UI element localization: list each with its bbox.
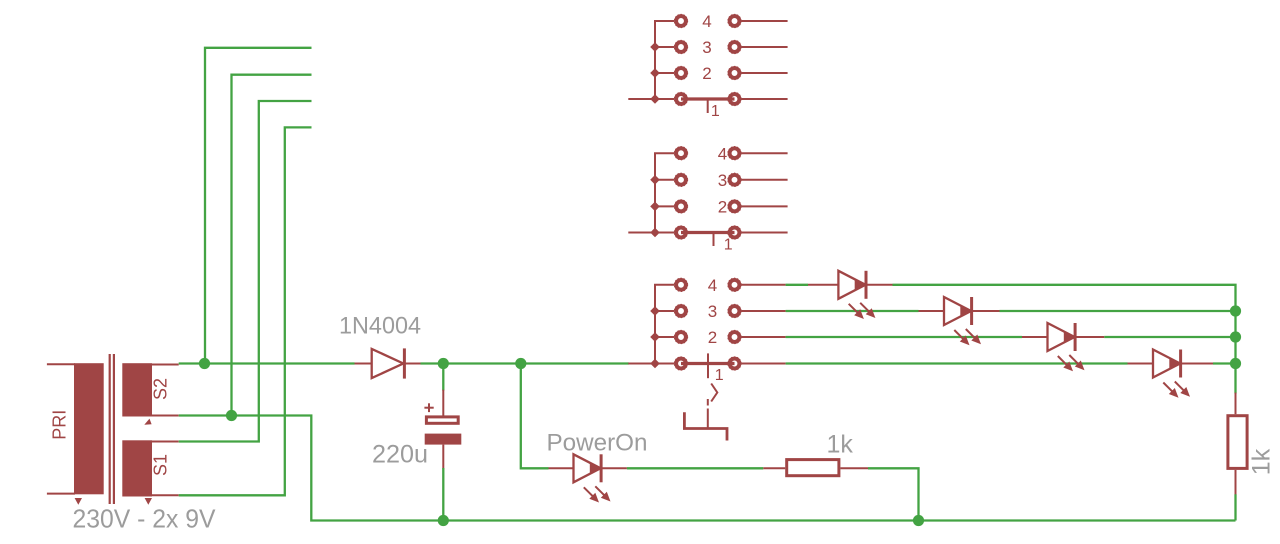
wire net4 corner to S1 bottom [179, 127, 312, 495]
connector J2 pad 2 left [676, 202, 686, 212]
svg-text:3: 3 [718, 171, 727, 190]
polarity arrow S2 pin [144, 419, 151, 425]
svg-text:1: 1 [711, 103, 720, 120]
resistor R2 1k vertical [1235, 393, 1237, 415]
svg-text:2: 2 [708, 328, 717, 347]
junction node 4 [226, 410, 237, 421]
connector J3 pad 4 left [676, 280, 686, 290]
connector J2 pad 1 left [676, 228, 686, 238]
wire PowerOn to resistor [627, 467, 763, 469]
capacitor C1 220u [442, 390, 444, 416]
LED D3 [808, 284, 838, 286]
connector J1 pad 1 left [676, 94, 686, 104]
LED D4 [919, 310, 944, 312]
svg-text:1k: 1k [827, 431, 854, 459]
junction node 8 [1230, 331, 1241, 342]
svg-text:S2: S2 [151, 378, 171, 400]
connector J2 right stubs [741, 152, 787, 154]
connector J1 tick [707, 101, 709, 114]
wire row3 LED D4 to right bus [1000, 310, 1236, 312]
wire net1 corner [205, 48, 312, 364]
svg-text:4: 4 [708, 276, 717, 295]
wire net3 corner to S1 top [179, 101, 312, 442]
connector J1 junction row2 [650, 68, 660, 78]
connector J2 pad 4 right [730, 148, 740, 158]
connector J1 right stubs [741, 20, 787, 22]
svg-text:2: 2 [718, 198, 727, 217]
connector J2 junction row1 [650, 228, 660, 238]
connector J3 pad 2 left [676, 332, 686, 342]
svg-text:1k: 1k [1248, 448, 1276, 475]
svg-text:4: 4 [702, 12, 711, 31]
wire row3 connector to LED D4 [786, 310, 919, 312]
connector J2 pad 3 left [676, 175, 686, 185]
connector J1 junction row1 [650, 94, 660, 104]
connector J1 left bus [655, 21, 674, 99]
LED D6 [1128, 363, 1153, 365]
junction node 5 [438, 515, 449, 526]
svg-text:2: 2 [702, 64, 711, 83]
svg-text:4: 4 [718, 144, 727, 163]
svg-text:3: 3 [702, 38, 711, 57]
diode D1 1N4004 [355, 363, 372, 365]
connector J3 junction row2 [650, 332, 660, 342]
LED PowerOn [549, 467, 574, 469]
svg-text:230V - 2x 9V: 230V - 2x 9V [73, 504, 217, 534]
wire row2 connector to LED D5 [786, 336, 1022, 338]
junction node 3 [515, 358, 526, 369]
connector J3 row1 bus line [681, 362, 735, 365]
earth bracket below J3 [707, 399, 709, 406]
wire S2 bottom to ground rail [179, 416, 1236, 521]
wire VCC rail from diode to connector [421, 362, 629, 364]
connector J2 tick [713, 234, 715, 246]
connector J1 pad 4 right [730, 16, 740, 26]
svg-text:220u: 220u [372, 441, 428, 469]
connector J2 pad 1 right [730, 228, 740, 238]
connector J3 pad 3 right [730, 306, 740, 316]
wire capacitor bottom [442, 468, 444, 521]
junction node 6 [913, 515, 924, 526]
connector J1 pad 4 left [676, 16, 686, 26]
svg-text:PRI: PRI [50, 410, 70, 440]
connector J2 junction row3 [650, 175, 660, 185]
connector J2 row1 stub left [628, 232, 674, 234]
connector J1 pad 3 left [676, 42, 686, 52]
connector J3 pad 3 left [676, 306, 686, 316]
LED D5 [1022, 336, 1047, 338]
polarity arrow S1 pin [145, 498, 152, 505]
transformer core [109, 354, 111, 504]
wire capacitor top [442, 364, 444, 391]
connector J2 row1 bus line [681, 231, 735, 234]
wire row1 LED D6 to right bus [1213, 362, 1236, 364]
connector J2 pad 4 left [676, 148, 686, 158]
connector J3 pad 4 right [730, 280, 740, 290]
connector J1 row1 bus line [681, 97, 735, 100]
polarity arrow PRI pin [75, 498, 82, 505]
junction node 1 [199, 358, 210, 369]
wire resistor R2 to ground rail [1234, 494, 1236, 520]
wire row2 LED D5 to right bus [1104, 336, 1235, 338]
svg-text:PowerOn: PowerOn [547, 430, 648, 457]
junction node 2 [438, 358, 449, 369]
junction node 7 [1230, 305, 1241, 316]
connector J3 right stubs [741, 284, 785, 286]
connector J3 row1 stub left [628, 363, 674, 365]
connector J2 left bus [655, 153, 674, 232]
connector J1 junction row3 [650, 42, 660, 52]
connector J3 junction row1 [650, 359, 660, 369]
connector J2 pad 3 right [730, 175, 740, 185]
svg-text:1N4004: 1N4004 [339, 313, 421, 340]
wire VCC rail from S2 to diode [179, 362, 355, 364]
junction node 9 [1230, 358, 1241, 369]
svg-text:1: 1 [724, 237, 733, 254]
wire row4 connector to LED D3 [786, 284, 808, 286]
connector J1 pad 1 right [730, 94, 740, 104]
connector J3 pad 1 left [676, 359, 686, 369]
connector J3 junction row3 [650, 306, 660, 316]
connector J3 pad 2 right [730, 332, 740, 342]
transformer TR1 secondary winding S2 [122, 363, 152, 416]
connector J2 junction row2 [650, 202, 660, 212]
connector J1 pad 3 right [730, 42, 740, 52]
wire branch to PowerOn LED [521, 364, 549, 469]
resistor R1 1k [763, 467, 785, 469]
svg-text:3: 3 [708, 302, 717, 321]
transformer TR1 primary winding PRI [74, 363, 104, 494]
connector J3 left bus [655, 285, 674, 364]
connector J3 tick [707, 353, 709, 378]
wire row4 LED D3 to right bus [893, 285, 1236, 394]
transformer TR1 secondary winding S1 [122, 440, 152, 496]
connector J1 pad 2 left [676, 68, 686, 78]
connector J1 pad 2 right [730, 68, 740, 78]
chevron mark below J3 [711, 384, 717, 402]
wire net2 corner [232, 75, 312, 416]
connector J1 row1 stub left [628, 98, 674, 100]
wire resistor to ground rail [868, 468, 919, 520]
wire row1 connector to LED D6 [786, 362, 1128, 364]
connector J3 pad 1 right [730, 359, 740, 369]
connector J2 pad 2 right [730, 202, 740, 212]
svg-text:1: 1 [715, 367, 724, 384]
svg-text:S1: S1 [151, 454, 171, 476]
